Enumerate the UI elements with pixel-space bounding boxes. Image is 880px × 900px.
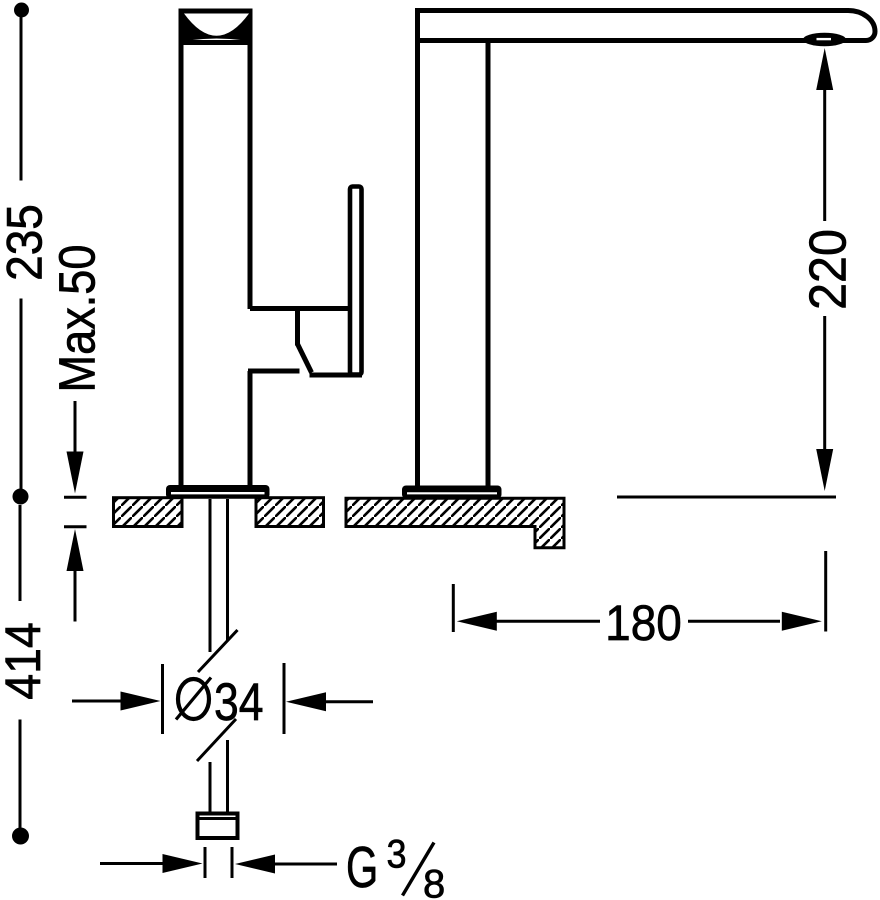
aerator outlet <box>803 33 846 47</box>
svg-text:414: 414 <box>0 622 51 700</box>
faucet body column right edge lower <box>248 371 253 487</box>
threaded shank rod upper segment <box>210 499 228 652</box>
base flange left figure <box>166 485 270 499</box>
dimension 180 <box>453 551 825 651</box>
svg-text:8: 8 <box>423 863 445 900</box>
dimension 235 <box>0 3 53 505</box>
spout arm bottom edge <box>420 38 858 43</box>
rod break mark lower <box>197 719 236 761</box>
column left edge <box>415 9 420 487</box>
svg-text:G: G <box>346 835 378 900</box>
svg-text:3: 3 <box>387 833 407 877</box>
left figure: faucet side view <box>181 9 250 487</box>
countertop deck right (hatched, with step) <box>346 498 564 548</box>
dimension G3/8 <box>100 833 445 900</box>
countertop deck left (hatched) <box>114 498 324 527</box>
spout top cap <box>179 9 253 46</box>
dimension Ø34 <box>72 663 373 734</box>
dimension 220 <box>800 48 858 491</box>
svg-text:34: 34 <box>214 673 264 732</box>
handle lever <box>350 187 362 375</box>
base flange right figure <box>402 486 502 499</box>
G3/8 connector <box>198 814 238 839</box>
svg-text:180: 180 <box>605 595 682 651</box>
svg-text:235: 235 <box>0 204 53 281</box>
handle housing <box>248 309 362 376</box>
dimension 414 <box>0 505 51 845</box>
svg-text:Max.50: Max.50 <box>49 244 106 392</box>
rod break mark upper <box>198 630 238 672</box>
faucet body column right edge upper <box>248 9 253 309</box>
dimension Max.50 <box>49 244 106 621</box>
right figure: faucet front view <box>415 9 858 487</box>
threaded shank rod lower segment <box>210 740 228 814</box>
column right edge <box>486 40 491 487</box>
deck reference line for 220 <box>617 496 836 499</box>
diameter symbol of Ø34 <box>178 679 209 719</box>
faucet body column left edge <box>179 9 184 487</box>
spout rounded tip <box>846 11 875 41</box>
svg-text:220: 220 <box>800 229 858 310</box>
spout arm top edge <box>415 8 849 13</box>
